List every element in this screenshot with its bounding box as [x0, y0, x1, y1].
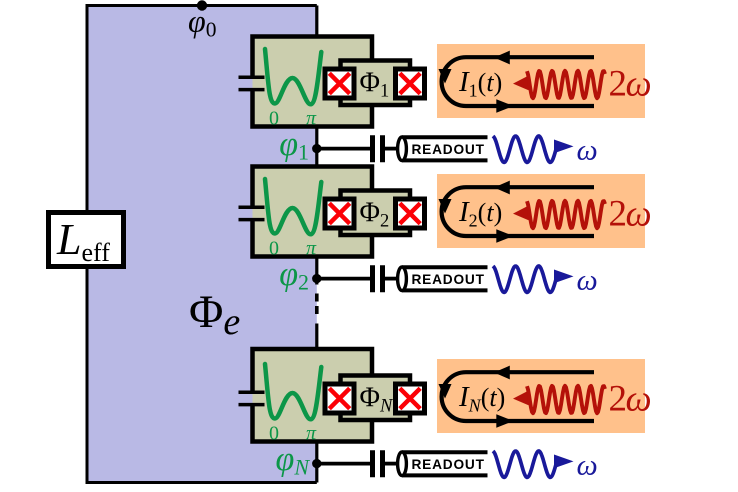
wire: loop top, left and bottom edges [87, 6, 317, 483]
svg-text:π: π [306, 238, 317, 260]
capacitor C2 (shunt, on well box left border) [239, 207, 265, 219]
Josephson junction J1l (left arm) [325, 69, 354, 98]
svg-text:I2(t): I2(t) [458, 196, 502, 231]
svg-text:READOUT: READOUT [412, 272, 485, 287]
double-well potential curve (qubit 1) [265, 49, 321, 104]
arrowhead: drive wave direction (leftward) [513, 206, 529, 221]
arrowhead: readout signal direction [554, 140, 574, 154]
svg-text:READOUT: READOUT [412, 142, 485, 157]
qubit 1 well box [253, 37, 373, 127]
wire: top edge to qubit 1 box [315, 6, 318, 40]
arrowhead: current direction (bottom, rightward) [496, 229, 513, 242]
wire: capacitor to readout resonator [385, 147, 401, 151]
wire: node phi_1 to readout capacitor [317, 147, 370, 151]
wire: continuation to qubit N box [315, 324, 318, 355]
arrowhead: current direction (left, downward) [439, 69, 452, 84]
wire: capacitor to readout resonator [385, 277, 401, 281]
Josephson junction JNl (left arm) [325, 384, 354, 413]
readout resonator (unit 1) [398, 137, 488, 161]
SQUID loop box (flux Phi_2) [341, 191, 411, 236]
main superconducting loop (flux Phi_e), effective inductance side [87, 6, 317, 483]
svg-text:ω: ω [577, 449, 598, 482]
current loop wire I_2(t) [442, 187, 594, 236]
node phi_N (junction dot) [312, 459, 321, 468]
drive panel (unit 1) [437, 44, 645, 118]
wire: capacitor to readout resonator [385, 462, 401, 466]
Josephson junction JNr (right arm) [396, 384, 425, 413]
capacitor CN (shunt, on well box left border) [239, 392, 265, 404]
wire: dashed continuation (elided qubits) [315, 294, 319, 315]
svg-text:0: 0 [269, 108, 279, 130]
double-well potential curve (qubit N) [265, 364, 321, 419]
svg-text:π: π [306, 423, 317, 445]
node phi_0 (top edge) [197, 0, 207, 10]
wire: qubit 2 box through node phi_2 [315, 254, 318, 285]
readout signal wave at omega (unit 2) [493, 266, 556, 292]
wire: node phi_2 to readout capacitor [317, 277, 370, 281]
node phi_2 (junction dot) [312, 274, 321, 283]
drive panel (unit 2) [437, 174, 645, 248]
svg-text:0: 0 [269, 238, 279, 260]
svg-text:2ω: 2ω [609, 194, 651, 235]
double-well potential curve (qubit 2) [265, 179, 321, 234]
drive panel (unit N) [437, 359, 645, 433]
arrowhead: current direction (top, leftward) [494, 366, 510, 380]
node phi_1 (junction dot) [312, 144, 321, 153]
capacitor C1 (shunt, on well box left border) [239, 77, 265, 89]
Josephson junction J2r (right arm) [396, 199, 425, 228]
arrowhead: readout signal direction [554, 270, 574, 284]
arrowhead: current direction (left, downward) [439, 384, 452, 399]
drive wave at 2omega (unit 1) [527, 71, 605, 98]
arrowhead: current direction (top, leftward) [494, 181, 510, 195]
SQUID loop box (flux Phi_N) [341, 376, 411, 421]
svg-text:IN(t): IN(t) [458, 381, 505, 416]
svg-text:2ω: 2ω [609, 379, 651, 420]
Josephson junction J2l (left arm) [325, 199, 354, 228]
wire: qubit 1 box to qubit 2 box through node phi_1 [315, 124, 318, 169]
arrowhead: current direction (bottom, rightward) [496, 414, 513, 427]
Josephson junction J1r (right arm) [396, 69, 425, 98]
drive wave at 2omega (unit 2) [527, 201, 605, 228]
capacitor: readout coupling (unit N) [373, 450, 383, 477]
capacitor: readout coupling (unit 2) [373, 265, 383, 292]
current loop wire I_1(t) [442, 57, 594, 106]
arrowhead: current direction (top, leftward) [494, 51, 510, 65]
current loop wire I_N(t) [442, 372, 594, 421]
svg-text:ω: ω [577, 264, 598, 297]
arrowhead: drive wave direction (leftward) [513, 76, 529, 91]
readout signal wave at omega (unit N) [493, 451, 556, 477]
qubit 2 well box [253, 167, 373, 257]
arrowhead: drive wave direction (leftward) [513, 391, 529, 406]
wire: qubit N box through node phi_N to bottom edge [315, 439, 318, 483]
arrowhead: readout signal direction [554, 455, 574, 469]
svg-text:π: π [306, 108, 317, 130]
capacitor: readout coupling (unit 1) [373, 135, 383, 162]
svg-text:2ω: 2ω [609, 64, 651, 105]
readout resonator (unit N) [398, 452, 488, 476]
svg-text:READOUT: READOUT [412, 457, 485, 472]
qubit N well box [253, 349, 373, 442]
inductor L_eff (effective inductance) [49, 213, 124, 268]
drive wave at 2omega (unit N) [527, 386, 605, 413]
wire: node phi_N to readout capacitor [317, 462, 370, 466]
readout signal wave at omega (unit 1) [493, 136, 556, 162]
svg-text:I1(t): I1(t) [458, 66, 502, 101]
readout resonator (unit 2) [398, 267, 488, 291]
arrowhead: current direction (left, downward) [439, 199, 452, 214]
SQUID loop box (flux Phi_1) [341, 61, 411, 106]
arrowhead: current direction (bottom, rightward) [496, 99, 513, 112]
svg-text:ω: ω [577, 134, 598, 167]
